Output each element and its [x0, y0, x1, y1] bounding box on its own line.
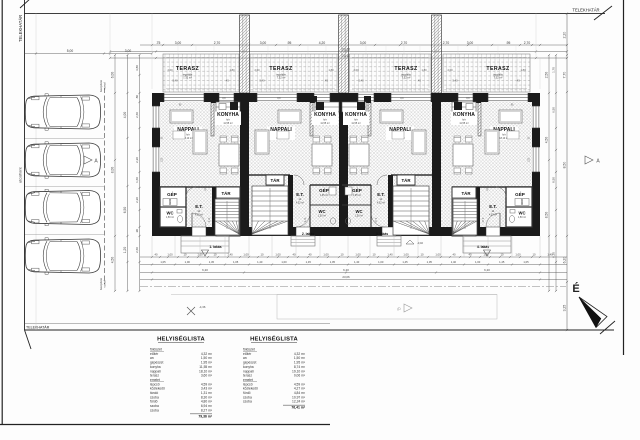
svg-text:2,00: 2,00 — [447, 68, 453, 72]
property boundary top line — [25, 13, 606, 15]
svg-text:5,40: 5,40 — [452, 79, 458, 83]
top dimension chain lines — [140, 44, 567, 46]
left site dimension chain — [25, 53, 153, 55]
top wall windows U1 — [164, 93, 204, 102]
svg-text:E.T.: E.T. — [296, 192, 304, 197]
party firewall chimney bar 2 — [339, 15, 349, 93]
svg-text:1,05: 1,05 — [330, 260, 336, 264]
svg-text:2,00: 2,00 — [167, 68, 173, 72]
svg-text:5,00: 5,00 — [67, 49, 74, 53]
svg-text:É: É — [572, 282, 579, 295]
boundary top-left break mark — [20, 0, 31, 8]
svg-text:1,40: 1,40 — [354, 260, 360, 264]
unit2 sofa group — [278, 110, 301, 123]
svg-text:1,45: 1,45 — [306, 260, 312, 264]
page right border — [623, 0, 625, 355]
left dimension chains — [114, 55, 116, 291]
bottom dimension chain row 1 — [140, 256, 567, 258]
building floor hatch — [160, 102, 532, 227]
svg-text:1,00: 1,00 — [378, 260, 384, 264]
level mark near building — [406, 240, 414, 244]
svg-text:utcafront: utcafront — [18, 167, 23, 183]
terrace unit 2 — [250, 54, 338, 92]
svg-text:E.T.: E.T. — [489, 204, 497, 209]
svg-text:vonal: vonal — [103, 82, 107, 90]
survey level mark — [187, 307, 195, 315]
top wall windows U2 — [257, 93, 297, 102]
entry door gaps bottom wall — [192, 227, 206, 236]
boundary bottom-left break mark — [25, 330, 32, 349]
svg-text:.45: .45 — [417, 79, 421, 83]
svg-text:.45: .45 — [516, 79, 520, 83]
car 1 — [25, 94, 100, 130]
unit4 kitchen — [452, 102, 476, 112]
svg-text:3,00: 3,00 — [360, 41, 367, 45]
svg-text:KONYHA: KONYHA — [217, 112, 239, 118]
svg-text:szoba: szoba — [243, 400, 252, 404]
svg-text:.75: .75 — [156, 41, 161, 45]
svg-text:2,20: 2,20 — [135, 157, 139, 163]
droplines building to chains — [151, 236, 153, 257]
party wall 2|3 — [339, 93, 348, 236]
svg-text:8,27 m²: 8,27 m² — [201, 408, 213, 412]
unit2 kitchen divider wall — [310, 102, 313, 136]
unit2 fixtures — [329, 187, 336, 195]
svg-text:WC: WC — [319, 209, 326, 214]
north arrow shape — [579, 297, 607, 328]
svg-text:1,40: 1,40 — [227, 252, 233, 256]
unit3 sofa group — [380, 110, 403, 123]
svg-text:TELEKHATÁR: TELEKHATÁR — [18, 15, 23, 42]
svg-text:3,00: 3,00 — [467, 41, 474, 45]
unit1 door arcs — [192, 213, 206, 227]
svg-text:1,45: 1,45 — [499, 260, 505, 264]
svg-text:GÉP: GÉP — [319, 186, 329, 193]
svg-text:10: 10 — [533, 252, 536, 256]
svg-text:5,40: 5,40 — [259, 79, 265, 83]
unit4 stairs — [453, 199, 477, 235]
svg-text:2,10: 2,10 — [209, 217, 211, 222]
unit1 kitchen divider wall — [211, 102, 214, 136]
top wall windows U4 — [458, 93, 473, 102]
unit1 left wall windows — [152, 106, 160, 128]
party wall 3|4 — [432, 93, 441, 236]
unit3 door arcs — [371, 213, 385, 227]
unit1 nappali — [174, 127, 202, 141]
svg-text:3,00: 3,00 — [125, 49, 132, 53]
svg-text:TÁR: TÁR — [221, 191, 231, 196]
long dash-dot reference line — [140, 286, 566, 288]
svg-text:4,32 m²: 4,32 m² — [377, 202, 385, 205]
svg-text:11,55 m²: 11,55 m² — [459, 122, 468, 125]
svg-text:TERASZ: TERASZ — [269, 66, 293, 72]
svg-text:1,00: 1,00 — [197, 252, 203, 256]
svg-text:3,00: 3,00 — [175, 41, 182, 45]
svg-text:3,25: 3,25 — [563, 305, 567, 312]
property boundary bottom line — [25, 329, 615, 331]
svg-text:1,40: 1,40 — [387, 252, 393, 256]
svg-text:1,05: 1,05 — [160, 260, 166, 264]
unit1 kitchen — [216, 102, 240, 112]
svg-text:7,32 m²: 7,32 m² — [277, 76, 286, 80]
svg-text:1,40: 1,40 — [547, 252, 553, 256]
svg-text:10: 10 — [341, 252, 344, 256]
svg-text:1,80: 1,80 — [421, 68, 427, 72]
svg-text:GÉP: GÉP — [515, 190, 525, 197]
parking bay divider lines — [25, 138, 104, 140]
unit2 door arcs — [296, 213, 310, 227]
svg-text:7,32 m²: 7,32 m² — [183, 76, 192, 80]
svg-text:2,60: 2,60 — [135, 247, 139, 253]
svg-text:40: 40 — [453, 252, 456, 256]
svg-text:10: 10 — [184, 252, 187, 256]
svg-text:2,00: 2,00 — [353, 68, 359, 72]
bottom dimension chain row 2 — [140, 264, 567, 266]
unit3 kitchen — [342, 102, 366, 112]
site right dimension line — [566, 14, 568, 330]
svg-text:3,00: 3,00 — [260, 41, 267, 45]
party firewall chimney bar 1 — [240, 15, 250, 93]
svg-text:-4,36: -4,36 — [199, 305, 206, 309]
property boundary left line — [24, 0, 26, 330]
svg-text:2,10: 2,10 — [305, 217, 307, 222]
bottom dimension chain row 4 — [140, 279, 567, 281]
svg-text:4. lakás: 4. lakás — [477, 245, 489, 249]
svg-text:11,55 m²: 11,55 m² — [223, 122, 232, 125]
svg-text:TÁR: TÁR — [270, 178, 280, 183]
svg-text:3. lakás: 3. lakás — [376, 232, 388, 236]
svg-text:1,50 m²: 1,50 m² — [318, 215, 326, 218]
svg-text:1,40: 1,40 — [257, 260, 263, 264]
svg-text:HELYISÉGLISTA: HELYISÉGLISTA — [157, 335, 205, 343]
svg-text:1,05: 1,05 — [233, 260, 239, 264]
svg-text:10: 10 — [373, 252, 376, 256]
unit1 stairs — [215, 199, 239, 235]
svg-text:2,10: 2,10 — [374, 218, 376, 223]
svg-text:2,70: 2,70 — [443, 41, 450, 45]
svg-text:8,50: 8,50 — [563, 162, 567, 169]
section marker A left — [84, 156, 92, 164]
svg-text:2,70: 2,70 — [401, 41, 408, 45]
section marker D bottom — [404, 304, 412, 312]
svg-text:10: 10 — [261, 252, 264, 256]
svg-text:TÁR: TÁR — [461, 191, 471, 196]
svg-text:E.T.: E.T. — [377, 192, 385, 197]
svg-text:2,10: 2,10 — [481, 218, 483, 223]
svg-text:23,06: 23,06 — [342, 275, 350, 279]
unit1 sofa group — [170, 110, 193, 123]
svg-text:10: 10 — [214, 252, 217, 256]
svg-text:1,00: 1,00 — [243, 252, 249, 256]
unit3 kitchen divider wall — [368, 102, 371, 136]
unit2 dining table — [312, 144, 332, 166]
svg-text:2,50: 2,50 — [545, 72, 549, 79]
party firewall chimney bar 3 — [432, 15, 442, 93]
svg-text:4,20: 4,20 — [319, 41, 326, 45]
svg-text:.45: .45 — [225, 79, 229, 83]
svg-text:6,20: 6,20 — [202, 268, 208, 272]
svg-text:1,05: 1,05 — [523, 260, 529, 264]
svg-text:1,60: 1,60 — [135, 177, 139, 183]
svg-text:10: 10 — [421, 252, 424, 256]
svg-text:40: 40 — [309, 252, 312, 256]
terrace unit 4 — [443, 54, 530, 92]
svg-text:4,50: 4,50 — [111, 257, 115, 264]
svg-text:1,95 m²: 1,95 m² — [320, 194, 328, 197]
svg-text:2,70: 2,70 — [524, 41, 531, 45]
svg-text:.45: .45 — [324, 79, 328, 83]
svg-text:vonal: vonal — [103, 280, 107, 288]
svg-text:6,20: 6,20 — [563, 257, 567, 264]
svg-text:6,20: 6,20 — [484, 268, 490, 272]
top wall windows U3 — [358, 93, 374, 102]
unit4 fixtures — [523, 199, 530, 206]
svg-text:1,00: 1,00 — [475, 260, 481, 264]
svg-text:1,00: 1,00 — [483, 252, 489, 256]
svg-text:KONYHA: KONYHA — [345, 112, 367, 118]
svg-text:4,32 m²: 4,32 m² — [296, 202, 304, 205]
svg-text:TERASZ: TERASZ — [176, 66, 200, 72]
right dimension chains — [548, 55, 550, 291]
terrace unit 3 — [349, 54, 431, 92]
garden outline rectangle — [277, 295, 497, 320]
top exterior wall — [152, 93, 540, 102]
svg-text:1,00: 1,00 — [435, 252, 441, 256]
svg-text:TELEKHATÁR: TELEKHATÁR — [26, 326, 50, 330]
svg-text:1,50: 1,50 — [162, 157, 164, 162]
unit3 fixtures — [345, 187, 352, 195]
svg-text:1,50 m²: 1,50 m² — [166, 216, 174, 219]
unit3 entry steps — [377, 236, 401, 246]
unit3 stairs — [393, 186, 429, 235]
unit1 entry porch — [181, 236, 229, 253]
svg-text:10: 10 — [501, 252, 504, 256]
svg-text:1,00: 1,00 — [275, 252, 281, 256]
car 3 — [25, 189, 100, 225]
svg-text:4,00: 4,00 — [123, 112, 127, 119]
svg-text:HELYISÉGLISTA: HELYISÉGLISTA — [250, 335, 298, 343]
section marker A right — [585, 156, 593, 164]
svg-text:6,20: 6,20 — [343, 268, 349, 272]
bottom dimension chain row 3 — [140, 272, 567, 274]
unit4 kitchen divider wall — [478, 102, 481, 136]
svg-text:WC: WC — [356, 209, 363, 214]
svg-text:1,20: 1,20 — [123, 247, 127, 254]
car 4 — [25, 238, 100, 274]
svg-text:1,05: 1,05 — [427, 260, 433, 264]
svg-text:1. lakás: 1. lakás — [209, 245, 221, 249]
svg-text:1,00: 1,00 — [355, 252, 361, 256]
page left border — [1, 0, 3, 425]
svg-text:2,20: 2,20 — [135, 197, 139, 203]
svg-text:7,32 m²: 7,32 m² — [402, 76, 411, 80]
svg-text:GÉP: GÉP — [167, 190, 177, 197]
svg-text:1,00: 1,00 — [403, 252, 409, 256]
unit2 stairs — [252, 186, 288, 235]
svg-text:0,06 m²: 0,06 m² — [294, 374, 306, 378]
svg-text:.95: .95 — [506, 41, 511, 45]
svg-text:1,00: 1,00 — [167, 252, 173, 256]
unit2 nappali — [267, 127, 295, 141]
svg-text:1,50 m²: 1,50 m² — [518, 216, 526, 219]
boundary bottom-right break mark — [600, 321, 615, 334]
bottom exterior wall — [152, 227, 540, 236]
unit4 nappali — [490, 127, 518, 141]
unit4 sofa group — [499, 110, 522, 123]
svg-text:6,50: 6,50 — [123, 207, 127, 214]
unit2 kitchen — [315, 102, 339, 112]
unit1 interior partitions — [160, 186, 240, 188]
svg-text:1,50: 1,50 — [529, 157, 531, 162]
svg-text:6,00: 6,00 — [111, 72, 115, 79]
svg-text:4,50: 4,50 — [545, 137, 549, 144]
unit1 fixtures — [163, 199, 170, 206]
svg-text:7,32 m²: 7,32 m² — [494, 76, 503, 80]
svg-text:6,50: 6,50 — [552, 107, 556, 113]
unit4 door arcs — [486, 213, 500, 227]
svg-text:E.T.: E.T. — [195, 204, 203, 209]
svg-text:40: 40 — [469, 252, 472, 256]
svg-text:TELEKHATÁR: TELEKHATÁR — [572, 8, 599, 13]
svg-text:2,60: 2,60 — [135, 112, 139, 118]
unit4 entry porch — [463, 236, 511, 253]
svg-text:7,70: 7,70 — [563, 72, 567, 79]
svg-text:11,55 m²: 11,55 m² — [351, 122, 360, 125]
svg-text:8,50: 8,50 — [545, 212, 549, 219]
svg-text:5,40: 5,40 — [172, 79, 178, 83]
unit2 entry steps — [291, 236, 315, 246]
unit3 nappali — [386, 127, 414, 141]
svg-text:5,40: 5,40 — [358, 79, 364, 83]
site faint vertical line — [35, 14, 37, 330]
unit2 interior partitions — [249, 174, 290, 176]
svg-text:1,80: 1,80 — [520, 68, 526, 72]
car 2 — [25, 142, 100, 178]
svg-text:KONYHA: KONYHA — [453, 112, 475, 118]
party wall 1|2 — [240, 93, 249, 236]
svg-text:40: 40 — [293, 252, 296, 256]
svg-text:2,00: 2,00 — [254, 68, 260, 72]
unit3 interior partitions — [391, 174, 432, 176]
svg-text:1,00: 1,00 — [515, 252, 521, 256]
unit4 right wall windows — [532, 106, 540, 128]
svg-text:.90: .90 — [135, 229, 139, 234]
svg-text:TERASZ: TERASZ — [394, 66, 418, 72]
svg-text:1,00: 1,00 — [323, 252, 329, 256]
svg-text:8,00: 8,00 — [111, 167, 115, 174]
svg-text:1,50 m²: 1,50 m² — [355, 215, 363, 218]
svg-text:WC: WC — [519, 211, 526, 216]
svg-text:.95: .95 — [287, 41, 292, 45]
unit3 dining table — [349, 144, 369, 166]
svg-text:KONYHA: KONYHA — [314, 112, 336, 118]
svg-text:1,80: 1,80 — [229, 68, 235, 72]
svg-text:1,95 m²: 1,95 m² — [353, 194, 361, 197]
svg-text:1,00: 1,00 — [281, 260, 287, 264]
terrace unit 1 — [163, 54, 239, 92]
svg-text:1,45: 1,45 — [402, 260, 408, 264]
svg-text:12,24 m²: 12,24 m² — [292, 400, 306, 404]
svg-text:WC: WC — [167, 211, 174, 216]
svg-text:1,40: 1,40 — [451, 260, 457, 264]
page bottom border — [0, 424, 330, 426]
svg-text:2. lakás: 2. lakás — [302, 232, 314, 236]
svg-text:11,55 m²: 11,55 m² — [320, 122, 329, 125]
svg-text:.80: .80 — [135, 95, 139, 100]
exterior wall right — [532, 93, 540, 236]
svg-text:1,80: 1,80 — [328, 68, 334, 72]
svg-text:1,00: 1,00 — [185, 260, 191, 264]
unit4 dining table — [453, 144, 473, 166]
svg-text:2,70: 2,70 — [214, 41, 221, 45]
svg-text:szoba: szoba — [150, 408, 159, 412]
svg-text:40: 40 — [155, 252, 158, 256]
svg-text:1,70: 1,70 — [552, 67, 556, 73]
svg-text:TÁR: TÁR — [401, 178, 411, 183]
svg-text:1,45: 1,45 — [209, 260, 215, 264]
svg-text:8,50: 8,50 — [552, 177, 556, 183]
svg-text:-0,02: -0,02 — [417, 241, 423, 245]
boundary top-right break mark — [594, 6, 612, 20]
unit4 interior partitions — [452, 186, 532, 188]
svg-text:3,60 m²: 3,60 m² — [201, 374, 213, 378]
exterior wall left — [152, 93, 160, 236]
unit1 dining table — [219, 144, 239, 166]
svg-text:79,36 m²: 79,36 m² — [198, 414, 212, 418]
svg-text:76,41 m²: 76,41 m² — [291, 406, 305, 410]
svg-text:2,20: 2,20 — [563, 32, 567, 39]
parking building line (dashed, beepitesi vonal) — [104, 88, 106, 284]
svg-text:3,80: 3,80 — [135, 65, 139, 71]
svg-text:TERASZ: TERASZ — [486, 66, 510, 72]
svg-text:GÉP: GÉP — [352, 186, 362, 193]
